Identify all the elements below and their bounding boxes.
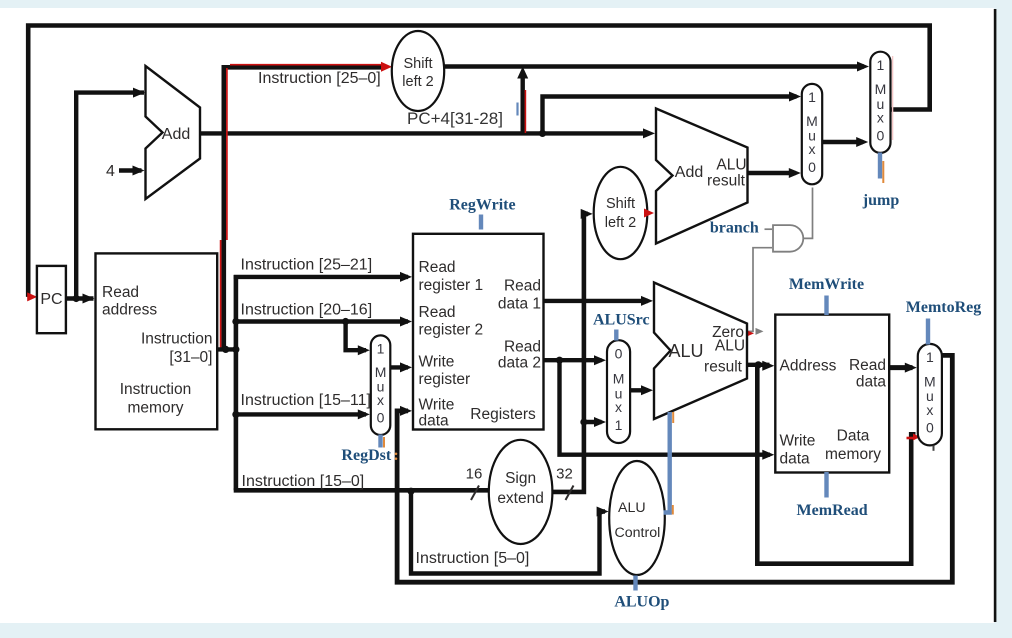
svg-text:data: data — [856, 374, 887, 391]
svg-text:register 2: register 2 — [419, 322, 484, 339]
svg-text:MemtoReg: MemtoReg — [906, 299, 982, 316]
svg-text:16: 16 — [466, 466, 483, 483]
svg-text:x: x — [809, 141, 816, 157]
svg-text:Add: Add — [162, 126, 190, 143]
svg-text:x: x — [926, 402, 933, 418]
svg-text:RegDst: RegDst — [341, 447, 391, 464]
svg-text:PC+4[31-28]: PC+4[31-28] — [407, 109, 503, 128]
svg-text:M: M — [613, 370, 625, 386]
svg-text:Write: Write — [780, 433, 816, 450]
svg-text:memory: memory — [128, 400, 184, 417]
svg-text:data: data — [419, 413, 450, 430]
svg-text:x: x — [615, 399, 622, 415]
svg-text:result: result — [704, 359, 743, 376]
svg-text:left 2: left 2 — [605, 215, 636, 231]
svg-text:ALU: ALU — [618, 500, 646, 516]
svg-text:Read: Read — [419, 259, 456, 276]
svg-text:Shift: Shift — [403, 56, 432, 72]
svg-text:Shift: Shift — [606, 196, 635, 212]
svg-text:M: M — [924, 374, 936, 390]
svg-text:jump: jump — [862, 192, 900, 209]
svg-text:Instruction [25–0]: Instruction [25–0] — [258, 70, 381, 87]
svg-text:result: result — [707, 173, 746, 190]
svg-text:4: 4 — [106, 163, 115, 180]
svg-text:Instruction: Instruction — [141, 331, 213, 348]
svg-text:1: 1 — [615, 417, 623, 433]
svg-text:x: x — [377, 392, 384, 408]
svg-text:data 1: data 1 — [498, 296, 541, 313]
svg-text:Control: Control — [615, 525, 661, 541]
svg-text:1: 1 — [877, 57, 885, 73]
svg-text:left 2: left 2 — [402, 74, 433, 90]
svg-text:Instruction [5–0]: Instruction [5–0] — [416, 550, 530, 567]
svg-text:1: 1 — [377, 340, 385, 356]
svg-text:0: 0 — [926, 420, 934, 436]
svg-text:Instruction [15–11]: Instruction [15–11] — [241, 392, 371, 409]
svg-text:Data: Data — [837, 428, 870, 445]
svg-text:Instruction: Instruction — [120, 381, 192, 398]
svg-text:RegWrite: RegWrite — [449, 197, 515, 214]
svg-text:Write: Write — [419, 354, 455, 371]
svg-text:Read: Read — [849, 357, 886, 374]
svg-text:32: 32 — [556, 466, 573, 483]
svg-text:MemRead: MemRead — [797, 502, 868, 519]
svg-text::: : — [393, 447, 398, 464]
svg-text:extend: extend — [497, 490, 544, 507]
svg-text:ALU: ALU — [716, 157, 746, 174]
svg-text:Read: Read — [504, 278, 541, 295]
svg-text:Add: Add — [675, 164, 703, 181]
svg-text:Instruction [15–0]: Instruction [15–0] — [242, 473, 365, 490]
svg-text:0: 0 — [808, 159, 816, 175]
svg-text:1: 1 — [926, 349, 934, 365]
svg-text:Sign: Sign — [505, 470, 536, 487]
svg-text:memory: memory — [825, 446, 881, 463]
svg-text:register 1: register 1 — [419, 277, 484, 294]
svg-text:Write: Write — [419, 397, 455, 414]
svg-text:ALU: ALU — [715, 338, 745, 355]
svg-text:0: 0 — [615, 346, 623, 362]
svg-text:branch: branch — [710, 220, 759, 237]
svg-text:M: M — [875, 81, 887, 97]
svg-text:ALUSrc: ALUSrc — [593, 312, 650, 329]
svg-text:0: 0 — [877, 127, 885, 143]
svg-text:Read: Read — [419, 304, 456, 321]
svg-text:PC: PC — [40, 291, 62, 308]
svg-text:Read: Read — [102, 284, 139, 301]
svg-text:Registers: Registers — [470, 406, 536, 423]
svg-text:register: register — [419, 371, 471, 388]
svg-text:Address: Address — [780, 358, 837, 375]
svg-text:[31–0]: [31–0] — [169, 349, 212, 366]
svg-text:x: x — [877, 110, 884, 126]
svg-text:Instruction [25–21]: Instruction [25–21] — [241, 257, 373, 274]
svg-text:MemWrite: MemWrite — [789, 276, 864, 293]
svg-text:address: address — [102, 302, 157, 319]
svg-text:data 2: data 2 — [498, 355, 541, 372]
svg-text:0: 0 — [377, 410, 385, 426]
svg-text:1: 1 — [808, 89, 816, 105]
svg-text:ALU: ALU — [668, 341, 703, 361]
svg-text:data: data — [780, 451, 811, 468]
svg-text:Instruction [20–16]: Instruction [20–16] — [241, 302, 373, 319]
svg-text:ALUOp: ALUOp — [614, 594, 669, 611]
svg-text:Read: Read — [504, 339, 541, 356]
